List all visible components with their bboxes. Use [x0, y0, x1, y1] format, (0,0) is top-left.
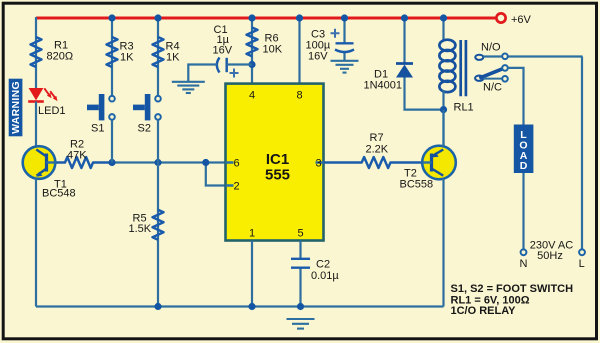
svg-text:2.2K: 2.2K: [366, 144, 389, 156]
wire: R3/S1 branch: [111, 18, 113, 96]
load box: [514, 125, 534, 174]
node pin1 bottom: [248, 303, 255, 310]
svg-text:2: 2: [233, 181, 239, 193]
IC U1 555: [226, 84, 324, 241]
resistor R1: [31, 37, 74, 67]
transistor T2: [400, 146, 456, 191]
capacitor C1: [188, 24, 252, 81]
svg-text:1N4001: 1N4001: [364, 80, 403, 92]
ground C1: [172, 82, 205, 93]
capacitor C3: [306, 17, 355, 63]
wire: pin8 branch: [298, 18, 300, 84]
svg-text:16V: 16V: [308, 51, 328, 63]
svg-text:C2: C2: [316, 259, 330, 271]
capacitor C2: [291, 241, 339, 307]
svg-text:1C/O RELAY: 1C/O RELAY: [451, 305, 517, 317]
notes: [451, 283, 574, 317]
svg-text:3: 3: [315, 158, 321, 170]
relay contact N/O line: [475, 42, 582, 60]
svg-text:1: 1: [249, 228, 255, 240]
svg-text:BC548: BC548: [42, 188, 76, 200]
wire: +6V top rail (red): [36, 17, 497, 20]
svg-text:820Ω: 820Ω: [47, 51, 74, 63]
node rail dots: [108, 14, 447, 21]
svg-text:LED1: LED1: [38, 105, 66, 117]
svg-text:1K: 1K: [166, 52, 180, 64]
svg-text:WARNING: WARNING: [10, 81, 22, 134]
svg-text:L: L: [579, 258, 585, 270]
svg-text:S2: S2: [138, 123, 151, 135]
label 230V AC: [530, 240, 573, 262]
ground C3: [331, 61, 359, 73]
svg-text:50Hz: 50Hz: [537, 250, 563, 262]
svg-text:4: 4: [249, 90, 255, 102]
svg-text:555: 555: [265, 167, 290, 184]
terminal +6V: [496, 13, 531, 26]
wire: R6 branch: [251, 18, 253, 84]
svg-text:N/C: N/C: [483, 82, 502, 94]
wire: pin1 down: [251, 241, 253, 307]
resistor R3: [107, 37, 135, 67]
wire: pin2 jog: [206, 163, 226, 186]
switch S2: [133, 94, 161, 135]
svg-text:0.01µ: 0.01µ: [311, 270, 339, 282]
wire: T1 emitter to bottom rail: [35, 178, 37, 307]
wire: N/O to L terminal: [581, 57, 583, 250]
resistor R5: [129, 210, 164, 240]
svg-text:N: N: [520, 258, 528, 270]
switch S1: [87, 94, 115, 135]
wire: LOAD to N terminal: [522, 173, 524, 249]
wire: S1 to mid: [111, 120, 113, 163]
node C1/R6: [248, 61, 255, 68]
wire: T2 bottom to rail: [442, 179, 444, 307]
svg-text:N/O: N/O: [481, 42, 501, 54]
node junction S2 line: [154, 159, 161, 166]
wire: R1 branch x=36 rail to LED: [35, 17, 37, 88]
relay coil RL1: [439, 17, 473, 147]
svg-text:1K: 1K: [120, 52, 134, 64]
wire: R4/S2 branch: [157, 18, 159, 96]
node D1/relay/T2: [440, 106, 447, 113]
svg-text:D: D: [520, 160, 528, 172]
svg-text:47K: 47K: [67, 150, 87, 162]
svg-text:6: 6: [233, 158, 239, 170]
resistor R7: [324, 132, 423, 168]
wire: pole to LOAD: [508, 68, 524, 125]
svg-text:1.5K: 1.5K: [129, 223, 152, 235]
svg-text:R7: R7: [370, 132, 384, 144]
resistor R2: [56, 139, 112, 169]
wire: mid wire to pin6: [112, 161, 226, 163]
svg-text:BC558: BC558: [400, 179, 434, 191]
wire: T2 top to relay node: [442, 110, 444, 146]
svg-text:8: 8: [296, 90, 302, 102]
svg-text:+6V: +6V: [511, 14, 532, 26]
node C2 bottom: [297, 303, 304, 310]
diode D1: [364, 17, 444, 110]
relay armature: [475, 65, 508, 93]
wire: LED to T1: [35, 102, 37, 148]
svg-text:RL1: RL1: [454, 102, 474, 114]
wire: bottom rail: [36, 305, 444, 307]
terminal L: [579, 249, 585, 270]
warning banner: [9, 79, 23, 137]
node R5 bottom: [154, 303, 161, 310]
svg-text:16V: 16V: [213, 45, 233, 57]
svg-text:5: 5: [297, 228, 303, 240]
transistor T1: [23, 146, 76, 199]
terminal N: [520, 249, 528, 270]
wire: S2 to R5 to bottom rail: [157, 120, 159, 307]
ground bottom: [287, 319, 315, 329]
svg-text:10K: 10K: [263, 44, 283, 56]
resistor R6: [247, 28, 283, 57]
LED LED1: [28, 88, 65, 117]
svg-text:S1, S2 = FOOT SWITCH: S1, S2 = FOOT SWITCH: [451, 283, 574, 295]
svg-text:S1: S1: [91, 123, 104, 135]
resistor R4: [153, 37, 181, 67]
node junction R2/S1: [108, 159, 115, 166]
svg-text:IC1: IC1: [266, 151, 289, 168]
node junction pin6/pin2: [202, 159, 209, 166]
